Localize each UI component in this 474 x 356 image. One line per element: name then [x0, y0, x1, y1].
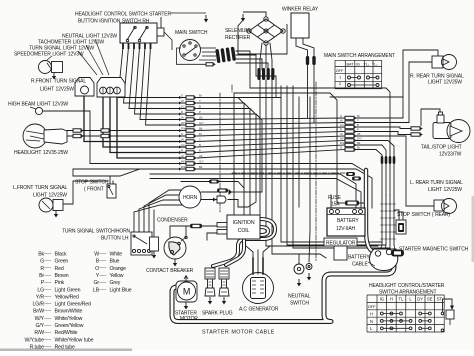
svg-text:R/W: R/W [34, 330, 44, 336]
svg-text:R/W: R/W [340, 141, 346, 145]
svg-text:SELENIUM: SELENIUM [225, 28, 249, 34]
svg-text:IGNITION: IGNITION [233, 220, 255, 226]
svg-text:Br/W: Br/W [33, 309, 44, 315]
svg-text:White/Yellow tube: White/Yellow tube [55, 337, 94, 343]
svg-text:R: R [340, 128, 342, 132]
svg-text:12V-9AH: 12V-9AH [336, 226, 356, 232]
svg-text:LIGHT 12V25W: LIGHT 12V25W [33, 193, 67, 199]
svg-text:-----: ----- [44, 280, 52, 285]
svg-text:( FRONT: ( FRONT [84, 187, 104, 193]
svg-text:W: W [340, 119, 343, 123]
svg-text:Light Blue: Light Blue [110, 287, 132, 293]
svg-text:-----: ----- [44, 322, 52, 327]
svg-text:P: P [357, 128, 359, 132]
svg-text:-----: ----- [99, 280, 107, 285]
svg-text:-----: ----- [99, 272, 107, 277]
svg-text:G/Y: G/Y [199, 160, 204, 164]
svg-text:-----: ----- [44, 287, 52, 292]
svg-text:N: N [370, 319, 373, 324]
svg-text:Light Green: Light Green [55, 287, 81, 293]
svg-text:WINKER RELAY: WINKER RELAY [282, 7, 319, 13]
svg-text:MAIN SWITCH: MAIN SWITCH [175, 30, 208, 36]
svg-text:RECTIFIER: RECTIFIER [225, 35, 251, 41]
svg-text:TL: TL [399, 296, 405, 301]
svg-text:Gr: Gr [181, 154, 184, 158]
svg-text:-----: ----- [44, 337, 52, 342]
svg-text:B: B [357, 123, 359, 127]
svg-text:W: W [181, 138, 184, 142]
svg-text:Brown/White: Brown/White [55, 309, 83, 315]
svg-text:COIL: COIL [238, 228, 250, 234]
svg-text:BATTERY: BATTERY [348, 255, 370, 261]
svg-text:-----: ----- [44, 272, 52, 277]
svg-text:-----: ----- [44, 301, 52, 306]
svg-text:SPARK PLUG: SPARK PLUG [202, 311, 233, 317]
svg-text:Yellow/Red: Yellow/Red [55, 294, 80, 300]
svg-text:Green/Yellow: Green/Yellow [55, 323, 84, 329]
svg-text:STARTER MOTOR CABLE: STARTER MOTOR CABLE [202, 330, 275, 336]
svg-text:TAIL./STOP LIGHT: TAIL./STOP LIGHT [421, 145, 462, 151]
svg-text:CONTACT BREAKER: CONTACT BREAKER [146, 268, 194, 274]
svg-text:Y: Y [199, 99, 201, 103]
svg-text:CONDENSER: CONDENSER [157, 218, 188, 224]
svg-text:SWITCH ARRANGEMENT: SWITCH ARRANGEMENT [379, 290, 437, 296]
svg-text:TL₁: TL₁ [364, 62, 370, 66]
svg-text:R/W: R/W [181, 165, 187, 169]
svg-text:FUSE: FUSE [328, 195, 342, 201]
svg-text:HORN: HORN [183, 195, 198, 201]
svg-text:-----: ----- [99, 251, 107, 256]
svg-text:L.FRONT TURN SIGNAL: L.FRONT TURN SIGNAL [13, 185, 68, 191]
svg-text:W/Y: W/Y [340, 137, 345, 141]
svg-text:IG: IG [380, 296, 384, 301]
svg-text:NEUTRAL: NEUTRAL [288, 294, 311, 300]
svg-text:-----: ----- [99, 265, 107, 270]
svg-text:W/Y: W/Y [181, 160, 186, 164]
svg-text:Br: Br [199, 132, 202, 136]
svg-text:Y: Y [357, 119, 359, 123]
svg-text:A.C GENERATOR: A.C GENERATOR [239, 307, 279, 313]
svg-text:BUTTON IGNITION SWITCH RH: BUTTON IGNITION SWITCH RH [78, 19, 150, 25]
svg-text:SWITCH: SWITCH [290, 301, 309, 307]
svg-text:LIGHT 12V25W: LIGHT 12V25W [40, 87, 74, 93]
svg-text:-----: ----- [44, 258, 52, 263]
svg-text:-----: ----- [44, 265, 52, 270]
svg-text:MOTOR: MOTOR [180, 316, 198, 322]
svg-text:LB: LB [199, 116, 203, 120]
svg-text:G: G [181, 132, 183, 136]
svg-text:-----: ----- [44, 344, 52, 349]
svg-text:STOP SWITCH ( REAR): STOP SWITCH ( REAR) [397, 212, 450, 218]
svg-text:STOP SWITCH: STOP SWITCH [75, 180, 109, 186]
svg-text:HEADLIGHT CONTROL/STARTER: HEADLIGHT CONTROL/STARTER [369, 283, 445, 289]
svg-text:Yellow: Yellow [110, 273, 124, 279]
svg-text:B: B [199, 105, 201, 109]
svg-text:LIGHT 12V25W: LIGHT 12V25W [428, 80, 462, 86]
svg-text:-----: ----- [44, 308, 52, 313]
svg-text:White/Yellow: White/Yellow [55, 316, 83, 322]
svg-text:P: P [199, 149, 201, 153]
svg-text:R/W: R/W [181, 127, 187, 131]
svg-text:Y: Y [199, 138, 201, 142]
svg-text:White: White [110, 252, 123, 258]
svg-text:IG: IG [356, 62, 360, 66]
svg-text:ST: ST [437, 296, 443, 301]
svg-text:BAT: BAT [347, 62, 355, 66]
svg-text:Light Green/Red: Light Green/Red [55, 302, 91, 308]
svg-text:Red: Red [55, 266, 64, 272]
svg-text:-----: ----- [99, 287, 107, 292]
svg-text:L. REAR TURN SIGNAL: L. REAR TURN SIGNAL [410, 180, 463, 186]
svg-text:-----: ----- [44, 330, 52, 335]
svg-text:HEADLIGHT CONTROL SWITCH START: HEADLIGHT CONTROL SWITCH STARTER [75, 12, 171, 18]
svg-text:M: M [183, 287, 190, 297]
svg-text:Br: Br [357, 146, 360, 150]
svg-text:Gr: Gr [340, 132, 343, 136]
svg-text:HEADLIGHT 12V35·25W: HEADLIGHT 12V35·25W [14, 150, 68, 156]
svg-text:LB: LB [357, 132, 361, 136]
svg-text:R.FRONT TURN SIGNAL: R.FRONT TURN SIGNAL [31, 79, 86, 85]
svg-text:P: P [199, 110, 201, 114]
svg-text:TL₂: TL₂ [372, 62, 378, 66]
svg-text:Pink: Pink [55, 280, 65, 286]
svg-text:R: R [181, 149, 183, 153]
svg-text:-----: ----- [44, 294, 52, 299]
svg-text:-----: ----- [99, 258, 107, 263]
svg-text:Green: Green [55, 259, 69, 265]
svg-text:H: H [390, 296, 393, 301]
svg-text:Orange: Orange [110, 266, 127, 272]
svg-text:LIGHT 12V25W: LIGHT 12V25W [428, 187, 462, 193]
svg-text:Br: Br [199, 94, 202, 98]
svg-text:BUTTON LH: BUTTON LH [101, 236, 129, 242]
svg-text:LG: LG [340, 123, 344, 127]
svg-text:12V23/7W: 12V23/7W [439, 152, 462, 158]
svg-text:CABLE: CABLE [352, 262, 368, 268]
svg-text:Brown: Brown [55, 273, 69, 279]
svg-text:LG: LG [181, 105, 185, 109]
svg-text:G/Y: G/Y [357, 137, 362, 141]
svg-text:TURN SIGNAL SWITCH/HORN: TURN SIGNAL SWITCH/HORN [62, 229, 131, 235]
svg-text:-----: ----- [44, 315, 52, 320]
svg-text:LB: LB [199, 154, 203, 158]
svg-text:OFF: OFF [336, 69, 344, 73]
svg-text:Red/White: Red/White [55, 330, 78, 336]
svg-text:LG: LG [181, 143, 185, 147]
svg-text:H: H [370, 311, 373, 316]
svg-text:Gr: Gr [181, 116, 184, 120]
svg-text:Br: Br [357, 114, 360, 118]
svg-text:LG/R: LG/R [32, 302, 44, 308]
svg-text:Y/R: Y/R [36, 294, 45, 300]
svg-text:W/Y.tube: W/Y.tube [25, 337, 45, 343]
svg-text:DY: DY [417, 296, 423, 301]
svg-text:B: B [199, 143, 201, 147]
svg-text:W/Y: W/Y [35, 316, 45, 322]
svg-text:R: R [181, 110, 183, 114]
svg-text:STARTER MAGNETIC SWITCH: STARTER MAGNETIC SWITCH [399, 247, 469, 253]
svg-text:W/Y: W/Y [181, 121, 186, 125]
svg-text:Blue: Blue [110, 259, 120, 265]
svg-text:G: G [340, 146, 342, 150]
svg-text:BATTERY: BATTERY [337, 218, 359, 224]
svg-text:REGULATOR: REGULATOR [326, 241, 356, 247]
svg-text:SPEEDOMETER LIGHT 12V3W: SPEEDOMETER LIGHT 12V3W [14, 52, 84, 58]
svg-text:HIGH BEAM LIGHT 12V3W: HIGH BEAM LIGHT 12V3W [8, 102, 68, 108]
svg-text:OFF: OFF [368, 304, 377, 309]
svg-text:Black: Black [55, 252, 67, 258]
svg-text:LG: LG [37, 287, 44, 293]
svg-text:Grey: Grey [110, 280, 121, 286]
svg-text:15A: 15A [331, 202, 340, 208]
svg-text:G/Y: G/Y [199, 121, 204, 125]
svg-text:W: W [181, 99, 184, 103]
svg-text:G: G [340, 114, 342, 118]
svg-text:SE: SE [427, 296, 433, 301]
svg-text:G: G [181, 94, 183, 98]
svg-text:-----: ----- [44, 251, 52, 256]
svg-text:MAIN SWITCH ARRANGEMENT: MAIN SWITCH ARRANGEMENT [324, 53, 395, 59]
